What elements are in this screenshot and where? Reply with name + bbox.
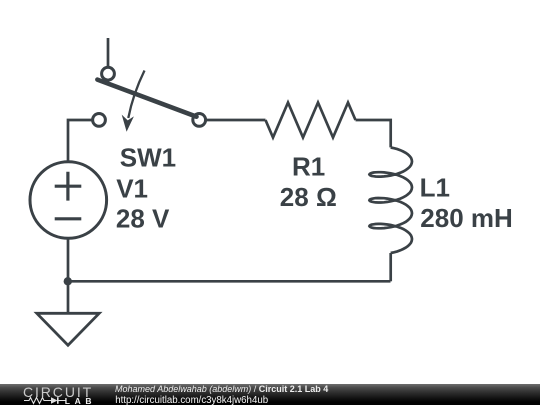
svg-text:V1: V1	[116, 173, 148, 203]
svg-text:L1: L1	[420, 172, 450, 202]
wire: left stub and down to source	[68, 120, 93, 162]
logo wire with resistor zigzag	[24, 398, 66, 404]
logo LAB word	[65, 396, 96, 406]
switch SW1 left terminal circle	[93, 114, 106, 127]
V1 minus sign	[55, 217, 82, 220]
wire: junction down to ground	[67, 281, 70, 313]
resistor R1 zigzag	[266, 103, 356, 138]
wire: source bottom to junction	[67, 239, 70, 282]
V1 plus sign	[55, 172, 82, 201]
logo diode triangle	[51, 397, 58, 404]
wire: resistor to top-right corner down to coil	[356, 120, 391, 147]
switch SW1 right terminal circle	[193, 114, 206, 127]
switch SW1 actuation arc	[128, 71, 144, 119]
switch SW1 arrow head	[122, 115, 134, 132]
CircuitLab logo word	[23, 384, 93, 400]
wire: switch to resistor	[206, 119, 266, 122]
switch SW1 throw terminal circle	[102, 67, 115, 80]
switch SW1 blade	[97, 80, 196, 117]
voltage source V1 circle	[30, 162, 107, 239]
svg-text:28 V: 28 V	[116, 203, 170, 233]
attribution line	[115, 384, 328, 394]
svg-text:28 Ω: 28 Ω	[280, 182, 337, 212]
wire: switch top lead	[107, 38, 110, 67]
inductor L1 coil	[369, 148, 412, 254]
svg-text:R1: R1	[292, 152, 325, 182]
logo diode cathode bar	[57, 397, 59, 404]
svg-text:SW1: SW1	[120, 143, 176, 173]
node junction dot	[64, 277, 72, 285]
wire: bottom rail	[68, 280, 391, 283]
logo squiggle: resistor + diode	[24, 396, 66, 405]
ground symbol	[37, 313, 99, 345]
footer bar	[0, 384, 540, 406]
url line	[115, 395, 268, 406]
wire: coil bottom to bottom rail	[389, 253, 392, 281]
svg-text:280 mH: 280 mH	[420, 203, 513, 233]
